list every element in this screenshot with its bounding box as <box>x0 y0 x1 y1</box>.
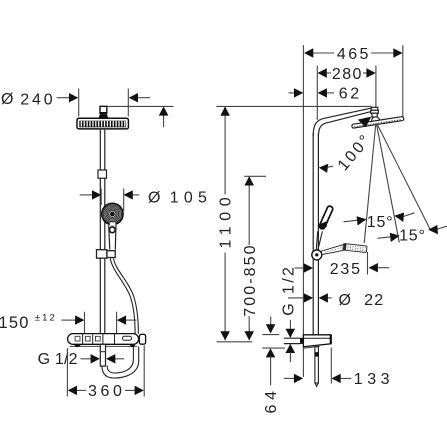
hose upper curve <box>113 258 138 333</box>
arm mount / ball joint <box>371 107 378 110</box>
shower arm (bend + slight rise) <box>313 108 371 136</box>
dim 15° second <box>378 237 392 239</box>
hand shower face disc <box>102 203 123 224</box>
dim 700-850 line <box>248 176 250 340</box>
datum arrow under top line (left view) <box>163 112 165 127</box>
svg-text:62: 62 <box>339 85 362 102</box>
svg-text:G 1/2: G 1/2 <box>38 351 78 368</box>
svg-text:105: 105 <box>170 190 212 207</box>
spray fan line B <box>376 124 399 243</box>
dim 64 <box>262 334 279 336</box>
svg-text:G 1/2: G 1/2 <box>281 265 298 316</box>
svg-text:Ø: Ø <box>1 91 13 108</box>
holder-height reference tick <box>244 175 266 177</box>
dim 15° first <box>344 220 358 222</box>
shower pipe (left view) <box>100 130 105 334</box>
thermostat body (left view) <box>68 334 139 345</box>
hand shower alternate position (dotted, horizontal) <box>321 245 344 255</box>
dim 1100 line <box>224 107 226 341</box>
svg-text:133: 133 <box>354 371 394 388</box>
dim 360 <box>67 346 144 397</box>
head plate (side, tilted) <box>352 116 404 128</box>
svg-text:700-850: 700-850 <box>242 243 259 316</box>
svg-text:64: 64 <box>263 386 280 413</box>
100° arc arrowhead at plate <box>358 117 372 128</box>
svg-text:Ø: Ø <box>339 292 351 309</box>
thermostat (side view) <box>303 335 331 347</box>
dim 280 <box>318 68 327 77</box>
pipe collar <box>98 170 107 178</box>
svg-text:Ø: Ø <box>148 189 160 206</box>
dim 133 <box>284 377 295 379</box>
datum line at head-top level (left segment) <box>107 105 174 107</box>
dim 62 <box>289 92 296 94</box>
wall bar pipe (side view) <box>312 133 314 335</box>
svg-text:465: 465 <box>337 46 371 63</box>
dim Ø240 extension lines <box>79 89 129 117</box>
datum line at head-top level (right segment) <box>216 105 371 107</box>
head connector <box>100 106 107 112</box>
hand shower handle <box>109 225 116 249</box>
svg-text:±12: ±12 <box>35 312 57 323</box>
dim 235 <box>295 267 305 269</box>
dim Ø240 arrow right <box>138 97 151 99</box>
svg-text:15°: 15° <box>399 227 426 244</box>
dim 465 <box>304 48 313 57</box>
hose lower U-bend <box>102 347 139 379</box>
thermostat end cap <box>139 334 145 344</box>
svg-text:22: 22 <box>364 292 384 309</box>
handle taper to holder <box>316 231 322 251</box>
svg-text:360: 360 <box>88 383 126 400</box>
overhead shower head (band with nozzle teeth) <box>77 118 128 129</box>
svg-text:15°: 15° <box>367 214 394 231</box>
svg-text:240: 240 <box>20 91 55 108</box>
hand shower in holder (side, upright) <box>319 205 334 229</box>
spray fan line C <box>377 124 431 232</box>
100° arrow at pipe <box>319 164 329 173</box>
outlet stub under thermostat <box>100 344 105 366</box>
hanging ring <box>109 227 115 233</box>
slide bar holder <box>97 250 107 259</box>
dim Ø22 <box>288 297 305 299</box>
svg-text:1100: 1100 <box>218 192 235 249</box>
supply stub from wall <box>284 338 300 343</box>
thermostat under-lip <box>70 345 137 347</box>
svg-text:280: 280 <box>332 66 363 83</box>
holder pivot circle <box>312 250 322 260</box>
dim Ø240 arrow left <box>57 97 70 99</box>
spray fan line A <box>364 124 376 244</box>
outlet stub hanging (side view) <box>315 347 319 383</box>
bottom reference tick <box>217 341 252 343</box>
svg-text:235: 235 <box>330 261 362 278</box>
svg-text:150: 150 <box>0 314 30 332</box>
wall line <box>302 45 304 377</box>
